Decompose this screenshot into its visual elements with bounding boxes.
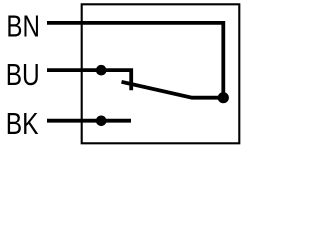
node junction dot (common)	[218, 92, 229, 103]
wire BN	[47, 23, 223, 96]
terminal dot on BK	[96, 116, 107, 127]
svg-text:BU: BU	[6, 57, 40, 92]
svg-text:BN: BN	[6, 9, 40, 44]
component box U1	[82, 4, 240, 143]
wire BU	[47, 70, 131, 90]
switch arm S1	[122, 82, 224, 98]
svg-text:BK: BK	[6, 106, 39, 141]
wire BK	[47, 119, 131, 123]
junction dot on BU	[96, 65, 107, 76]
